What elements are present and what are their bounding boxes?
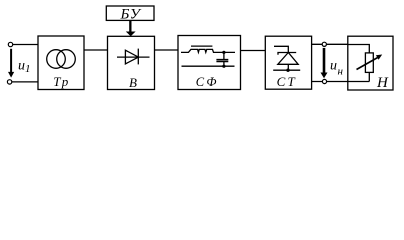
zener cathode bar with hook: [278, 53, 296, 55]
svg-text:Н: Н: [376, 75, 389, 91]
wire V to SF: [155, 49, 179, 51]
wire ST to N top: [312, 43, 348, 45]
box ST (stabilizer): [265, 36, 311, 89]
capacitor plate bottom: [216, 61, 228, 63]
zener axis to rail: [287, 64, 289, 70]
ST bottom rail: [273, 69, 300, 71]
zener top lead: [274, 46, 288, 52]
box V (rectifier): [108, 36, 155, 89]
resistor bottom stub: [368, 72, 370, 81]
box SF (smoothing filter): [178, 36, 241, 90]
arrow u_n: [321, 48, 328, 78]
arrow BU to V: [126, 20, 136, 36]
capacitor stub top: [223, 52, 225, 59]
output terminal top: [322, 42, 326, 46]
diode line: [117, 56, 150, 58]
transformer winding circle 1: [47, 50, 66, 69]
wire input top: [13, 44, 38, 46]
wire top inside N: [348, 45, 370, 53]
transformer winding circle 2: [57, 50, 76, 69]
wire ST to N bottom: [312, 81, 370, 83]
svg-text:Тр: Тр: [53, 74, 70, 89]
junction node top: [222, 51, 225, 54]
svg-text:БУ: БУ: [120, 7, 142, 23]
box Tr (transformer): [38, 36, 84, 90]
zener triangle: [278, 53, 298, 65]
box BU (control unit): [106, 6, 154, 20]
inductor winding (square humps): [181, 49, 235, 52]
svg-text:СФ: СФ: [196, 75, 219, 89]
junction node bottom: [222, 65, 225, 68]
variable resistor arrow: [357, 57, 380, 70]
box N (load): [348, 36, 393, 90]
wire input bottom: [12, 81, 38, 83]
wire SF to ST: [241, 50, 266, 52]
input terminal top: [8, 42, 12, 46]
SF bottom rail: [182, 65, 235, 67]
capacitor plate top: [216, 59, 228, 61]
arrow u1: [8, 49, 14, 78]
junction node: [286, 69, 289, 72]
output terminal bottom: [322, 79, 326, 83]
diode cathode bar: [137, 49, 139, 65]
inductor core line: [191, 45, 212, 47]
variable resistor body: [365, 53, 373, 73]
capacitor stub bottom: [223, 62, 225, 67]
svg-text:В: В: [129, 75, 137, 90]
wire Tr to V: [84, 49, 108, 51]
svg-text:СТ: СТ: [277, 74, 297, 89]
input terminal bottom: [7, 80, 11, 84]
diode triangle: [125, 50, 138, 64]
